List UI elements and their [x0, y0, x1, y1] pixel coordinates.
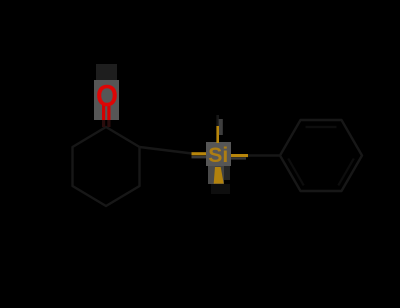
bond Si up gray patch — [219, 119, 223, 135]
node O label box — [94, 80, 119, 120]
bond Si up methyl dark upper — [216, 115, 219, 127]
wire chain C2 to Si — [140, 147, 193, 154]
svg-text:O: O — [96, 78, 118, 113]
wedge below shadow — [211, 184, 230, 194]
ring cyclohexanone — [73, 127, 140, 206]
ring phenyl — [280, 120, 362, 191]
bond Si-phenyl orange — [231, 154, 248, 157]
wire Si-phenyl dark — [248, 154, 280, 156]
bond wedge methyl — [214, 167, 224, 184]
wedge backdrop box left — [208, 166, 215, 184]
bond phenyl inner top — [306, 126, 337, 128]
wedge backdrop box mid — [215, 166, 224, 184]
bond Si-phenyl gray underline — [231, 157, 246, 159]
bond Si up methyl orange — [216, 126, 219, 143]
bond chain-Si gray underline — [192, 156, 207, 159]
bond phenyl inner left — [288, 159, 304, 186]
svg-text:Si: Si — [208, 144, 228, 167]
bond chain-Si orange dash — [192, 152, 207, 155]
bond C1=O double red — [102, 104, 105, 120]
bond phenyl inner right — [338, 159, 354, 186]
node Si label box — [206, 142, 231, 166]
shadow above O box — [96, 64, 117, 80]
wedge backdrop box right — [224, 166, 230, 180]
